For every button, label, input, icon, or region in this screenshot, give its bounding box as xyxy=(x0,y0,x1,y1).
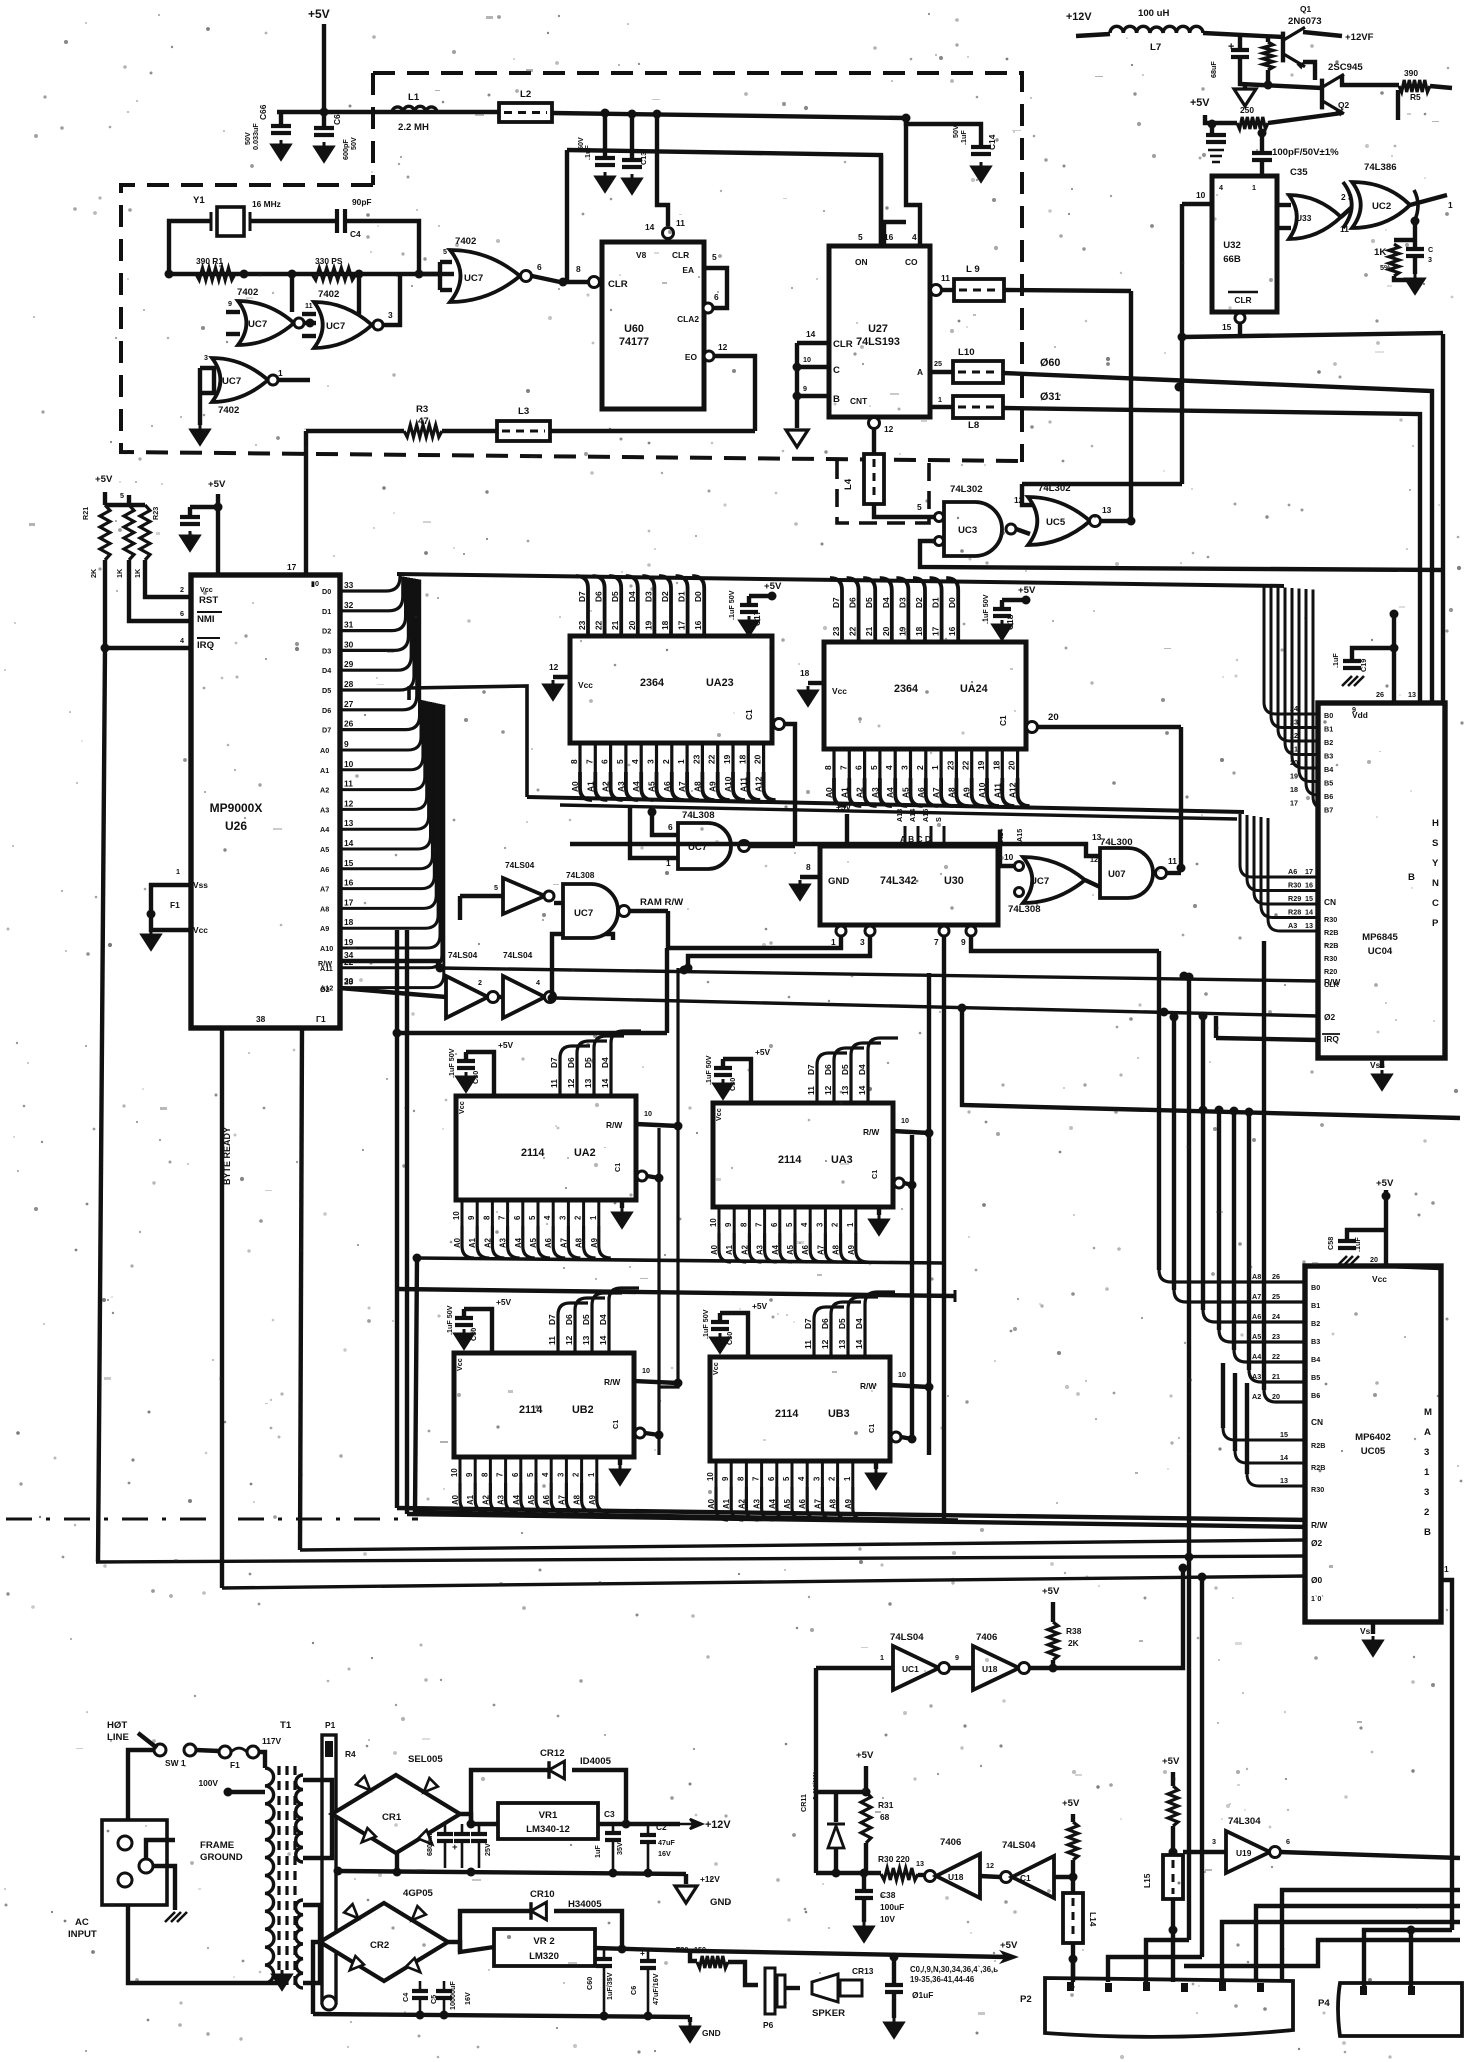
svg-text:D4: D4 xyxy=(600,1057,610,1068)
svg-text:B0: B0 xyxy=(1324,711,1333,720)
CPU U26 MPS9001 xyxy=(191,575,340,1028)
svg-text:A10: A10 xyxy=(977,782,987,798)
svg-text:UC05: UC05 xyxy=(1361,1446,1386,1457)
inverter UC6a 74LS04 xyxy=(460,894,503,898)
svg-text:MP9000X: MP9000X xyxy=(210,801,263,815)
diode CR12 bypass top xyxy=(471,1770,548,1824)
svg-text:D2: D2 xyxy=(322,627,331,636)
svg-text:13: 13 xyxy=(1092,832,1102,842)
svg-text:21: 21 xyxy=(864,626,874,636)
svg-text:21: 21 xyxy=(610,620,620,630)
svg-text:A5: A5 xyxy=(783,1498,792,1509)
wires from right edge into P2 xyxy=(1256,1906,1460,1982)
svg-text:1ˋ0ˋ: 1ˋ0ˋ xyxy=(1311,1594,1324,1603)
svg-text:0.033uF: 0.033uF xyxy=(251,123,260,150)
ROM UA24 top data pins xyxy=(830,578,842,642)
svg-text:A5: A5 xyxy=(786,1244,795,1255)
svg-text:2364: 2364 xyxy=(640,677,664,689)
svg-text:5: 5 xyxy=(526,1472,535,1477)
wire L7 to Q1 xyxy=(1203,33,1283,37)
svg-text:UC1: UC1 xyxy=(902,1664,919,1674)
svg-text:68: 68 xyxy=(880,1812,890,1822)
svg-text:A3: A3 xyxy=(320,805,329,814)
RAM UA3 data pins xyxy=(817,1053,847,1103)
svg-text:Q2: Q2 xyxy=(1338,100,1350,110)
svg-text:A4: A4 xyxy=(320,825,329,834)
svg-text:A5: A5 xyxy=(320,845,329,854)
svg-text:A9: A9 xyxy=(588,1494,597,1505)
svg-text:U27: U27 xyxy=(868,323,888,335)
svg-text:1: 1 xyxy=(930,765,940,770)
svg-text:9.1V/1W: 9.1V/1W xyxy=(811,1772,820,1800)
wire to 74177 CLR pin xyxy=(657,114,668,226)
svg-text:D6: D6 xyxy=(848,597,858,608)
wire U32 bottom pin 15 xyxy=(1235,313,1245,323)
svg-text:10: 10 xyxy=(344,759,354,769)
svg-text:17: 17 xyxy=(1290,799,1298,808)
delay line L8 xyxy=(930,405,953,409)
capacitor C14 xyxy=(906,118,981,145)
svg-text:D4: D4 xyxy=(322,666,331,675)
svg-text:390 R1: 390 R1 xyxy=(196,256,223,266)
gate UC7r 74LS08 xyxy=(678,823,731,869)
svg-text:+5V: +5V xyxy=(498,1040,514,1050)
wire U07 top input long xyxy=(570,844,1100,856)
svg-text:Ø31: Ø31 xyxy=(1040,391,1060,403)
svg-text:2: 2 xyxy=(572,1472,581,1477)
svg-text:47: 47 xyxy=(418,416,429,427)
svg-text:CR11: CR11 xyxy=(799,1794,808,1812)
svg-text:18: 18 xyxy=(660,620,670,630)
UC05 +5V decoupling xyxy=(1384,1190,1388,1266)
capacitor C12 decoupling xyxy=(603,113,607,158)
svg-text:A2: A2 xyxy=(855,787,865,798)
caps C4 C5 xyxy=(419,1981,422,1990)
svg-text:11: 11 xyxy=(549,1079,559,1088)
svg-text:R29: R29 xyxy=(1288,894,1301,903)
svg-text:22: 22 xyxy=(707,754,717,764)
svg-text:17: 17 xyxy=(677,620,687,630)
capacitor C35 timing xyxy=(1260,130,1264,152)
svg-text:A10: A10 xyxy=(320,944,333,953)
wire secondary to CR1 xyxy=(303,1780,332,1814)
svg-text:UC7: UC7 xyxy=(248,319,267,330)
svg-text:23: 23 xyxy=(1272,1332,1280,1341)
svg-text:Ø2: Ø2 xyxy=(1311,1538,1323,1548)
svg-text:Vcc: Vcc xyxy=(711,1362,720,1375)
svg-text:20: 20 xyxy=(1290,758,1298,767)
svg-text:30: 30 xyxy=(344,639,354,649)
svg-text:11: 11 xyxy=(941,273,950,283)
svg-text:74L308: 74L308 xyxy=(682,810,715,821)
counter U60 74177 xyxy=(602,242,704,409)
svg-text:MP6845: MP6845 xyxy=(1362,932,1398,943)
svg-text:6: 6 xyxy=(180,609,184,618)
svg-text:C6: C6 xyxy=(629,1986,638,1995)
RAM UA2 ground xyxy=(613,1208,631,1227)
svg-text:S: S xyxy=(934,817,943,822)
wire bottom bus L1 xyxy=(300,1540,1305,1550)
svg-text:9: 9 xyxy=(803,384,807,393)
RAM UB3 2114 xyxy=(710,1357,890,1461)
wire RAM rw verticals xyxy=(659,968,678,1387)
svg-text:22: 22 xyxy=(1272,1352,1280,1361)
wire U32 line vertical to UC04 xyxy=(1441,334,1445,703)
svg-text:Ø2: Ø2 xyxy=(320,985,330,994)
svg-text:2114: 2114 xyxy=(778,1154,801,1166)
svg-text:F1: F1 xyxy=(230,1760,240,1770)
svg-text:D6: D6 xyxy=(322,706,331,715)
wire switch chain xyxy=(196,1750,219,1751)
speaker CR13 xyxy=(785,1986,800,1990)
wire gate1 out to gate2 xyxy=(304,321,316,325)
svg-text:Ø0: Ø0 xyxy=(1311,1575,1323,1585)
svg-text:+5V: +5V xyxy=(496,1297,512,1307)
svg-text:B5: B5 xyxy=(1311,1373,1320,1382)
svg-text:50V: 50V xyxy=(349,137,358,150)
svg-text:13: 13 xyxy=(1408,690,1416,699)
svg-text:15: 15 xyxy=(1305,894,1313,903)
transistor Q2 2SC945 xyxy=(1320,79,1324,110)
wire phi2 long line to UC04 xyxy=(555,998,1318,1016)
wire zener node row xyxy=(816,1871,881,1875)
wire Q1 base bar xyxy=(1303,62,1315,80)
GND output xyxy=(684,1874,688,1884)
svg-text:16 MHz: 16 MHz xyxy=(252,199,281,209)
wire GND mid rail xyxy=(338,1871,686,1874)
svg-text:RAM R/W: RAM R/W xyxy=(640,897,684,908)
svg-text:D6: D6 xyxy=(820,1318,830,1329)
svg-text:6: 6 xyxy=(1286,1837,1290,1846)
svg-text:3: 3 xyxy=(1428,255,1432,264)
svg-text:2114: 2114 xyxy=(521,1147,544,1159)
wire vertical feed UC05 v7 xyxy=(1247,1112,1251,1370)
svg-text:N: N xyxy=(1432,878,1439,889)
svg-text:13: 13 xyxy=(840,1085,850,1095)
svg-text:L4: L4 xyxy=(843,478,854,490)
UC04 mid pins from phi lines xyxy=(1418,701,1422,705)
RAM UB3 data pins xyxy=(814,1307,844,1357)
svg-text:74L342: 74L342 xyxy=(880,875,917,887)
svg-text:L1: L1 xyxy=(408,92,420,103)
svg-text:T1: T1 xyxy=(280,1720,292,1731)
svg-text:74LS04: 74LS04 xyxy=(503,950,533,960)
svg-text:A8: A8 xyxy=(1252,1272,1261,1281)
svg-text:35V: 35V xyxy=(615,1842,624,1855)
svg-text:10: 10 xyxy=(1196,190,1206,200)
CPU bottom pins vertical xyxy=(220,1028,224,1588)
svg-text:Vss: Vss xyxy=(1370,1060,1385,1070)
svg-text:19: 19 xyxy=(1290,772,1298,781)
dashed page divider xyxy=(6,1518,418,1521)
svg-text:100uF: 100uF xyxy=(880,1902,904,1912)
svg-text:L3: L3 xyxy=(518,406,529,417)
svg-text:UC5: UC5 xyxy=(1046,517,1066,528)
svg-text:13: 13 xyxy=(344,818,354,828)
svg-text:21: 21 xyxy=(1272,1372,1280,1381)
svg-text:6800uF: 6800uF xyxy=(425,1831,434,1856)
svg-text:2114: 2114 xyxy=(775,1408,798,1420)
svg-text:7: 7 xyxy=(838,765,848,770)
resistor R33 150 speaker xyxy=(690,1951,697,1961)
svg-text:Vcc: Vcc xyxy=(193,925,208,935)
svg-text:L2: L2 xyxy=(520,89,531,100)
svg-text:32: 32 xyxy=(344,600,354,610)
svg-text:Γ1: Γ1 xyxy=(316,1014,326,1024)
svg-text:7402: 7402 xyxy=(218,405,239,416)
inverter U19 74LS04 right xyxy=(1183,1850,1226,1854)
svg-text:28: 28 xyxy=(344,679,354,689)
svg-text:A1: A1 xyxy=(320,766,329,775)
svg-text:H: H xyxy=(1432,818,1439,829)
svg-text:4: 4 xyxy=(800,1222,809,1227)
svg-text:A9: A9 xyxy=(708,781,718,792)
wire U07 out to CS vertical xyxy=(1166,871,1181,875)
svg-text:D5: D5 xyxy=(322,686,331,695)
svg-text:3: 3 xyxy=(1212,1837,1216,1846)
svg-text:11: 11 xyxy=(1340,224,1349,234)
svg-text:A1: A1 xyxy=(466,1494,475,1505)
svg-text:9: 9 xyxy=(721,1476,730,1481)
svg-text:.1uF 50V: .1uF 50V xyxy=(701,1309,710,1339)
svg-text:19: 19 xyxy=(643,620,653,630)
svg-text:A7: A7 xyxy=(931,787,941,798)
ground xor RC xyxy=(1394,276,1415,280)
svg-text:Vss: Vss xyxy=(193,880,208,890)
svg-text:R30: R30 xyxy=(1311,1485,1324,1494)
svg-text:C: C xyxy=(1428,245,1433,254)
svg-text:R/W: R/W xyxy=(606,1120,622,1130)
svg-text:CLR: CLR xyxy=(672,250,689,260)
wire A-bus trunk xyxy=(409,686,527,797)
svg-text:U18: U18 xyxy=(948,1872,964,1882)
wire CLR left pins xyxy=(797,341,829,345)
svg-text:A3: A3 xyxy=(616,781,626,792)
svg-text:1: 1 xyxy=(1448,200,1453,210)
RAM UB3 ground xyxy=(867,1469,885,1488)
svg-text:A3: A3 xyxy=(497,1494,506,1505)
svg-text:C1: C1 xyxy=(867,1424,876,1433)
svg-text:A8: A8 xyxy=(573,1494,582,1505)
svg-text:CN: CN xyxy=(1324,897,1336,907)
wire A-bus second line xyxy=(560,805,1237,819)
svg-text:.1uF: .1uF xyxy=(1353,1237,1362,1252)
svg-text:20: 20 xyxy=(1272,1392,1280,1401)
svg-text:10000uF: 10000uF xyxy=(448,1981,457,2010)
svg-text:11: 11 xyxy=(305,301,313,310)
xor gate UC2 74LS86 xyxy=(1352,182,1410,228)
svg-text:A7: A7 xyxy=(557,1495,566,1505)
svg-text:1: 1 xyxy=(587,1472,596,1477)
caps C60 C6 xyxy=(603,1949,606,1958)
svg-text:D5: D5 xyxy=(583,1057,593,1068)
RAM UA3 2114 xyxy=(713,1103,893,1207)
svg-text:150: 150 xyxy=(694,1945,706,1954)
svg-text:A7: A7 xyxy=(1252,1292,1261,1301)
fuse F1 xyxy=(219,1746,231,1758)
svg-text:B6: B6 xyxy=(1324,792,1333,801)
svg-text:ID4005: ID4005 xyxy=(580,1756,612,1767)
svg-text:A4: A4 xyxy=(514,1237,523,1248)
svg-text:A6: A6 xyxy=(544,1237,553,1248)
svg-text:D0: D0 xyxy=(693,591,703,602)
svg-text:R30: R30 xyxy=(1324,915,1337,924)
wire pin16/pin4 top xyxy=(906,118,920,246)
wire oscillator loop bottom xyxy=(169,272,454,276)
wire bottom bus L3 xyxy=(222,1576,1305,1588)
svg-text:7406: 7406 xyxy=(940,1837,961,1848)
svg-text:Vcc: Vcc xyxy=(714,1108,723,1121)
svg-text:74L308: 74L308 xyxy=(566,870,595,880)
svg-text:13: 13 xyxy=(837,1339,847,1349)
svg-text:1: 1 xyxy=(880,1653,884,1662)
svg-text:CLA2: CLA2 xyxy=(677,314,699,324)
svg-text:A3: A3 xyxy=(870,787,880,798)
svg-text:6: 6 xyxy=(767,1476,776,1481)
svg-text:S: S xyxy=(1432,838,1439,849)
svg-text:A7: A7 xyxy=(559,1238,568,1248)
wire rail right of L2 xyxy=(552,113,906,118)
svg-text:1: 1 xyxy=(831,937,836,947)
RAM UB3 +5V cap xyxy=(720,1313,748,1357)
svg-text:2.2 MH: 2.2 MH xyxy=(398,122,429,133)
svg-text:UA23: UA23 xyxy=(706,677,734,689)
svg-text:3: 3 xyxy=(900,765,910,770)
wire Q2 collector to R5 xyxy=(1342,76,1399,85)
svg-text:74L300: 74L300 xyxy=(1100,837,1133,848)
address fan curls into UC04 xyxy=(1240,814,1318,877)
svg-text:10: 10 xyxy=(706,1472,715,1481)
svg-text:6: 6 xyxy=(714,292,719,302)
svg-text:R/W: R/W xyxy=(604,1377,620,1387)
svg-text:B3: B3 xyxy=(1324,752,1333,761)
inverter UC6c 74LS04 xyxy=(498,995,503,999)
svg-text:+5V: +5V xyxy=(1062,1798,1080,1809)
wire crystal to C4 xyxy=(250,219,337,223)
svg-text:A11: A11 xyxy=(992,783,1002,798)
wire A-bus main xyxy=(527,797,1244,812)
RAM UB2 ground xyxy=(611,1465,629,1484)
svg-text:C14: C14 xyxy=(987,134,997,150)
wire RAM left vertical xyxy=(415,1258,417,1512)
ROM UA23 ground pin 12 xyxy=(553,675,570,679)
svg-text:5: 5 xyxy=(494,883,498,892)
svg-text:CR10: CR10 xyxy=(530,1889,555,1900)
svg-text:P1: P1 xyxy=(325,1720,336,1730)
svg-text:5: 5 xyxy=(785,1222,794,1227)
svg-text:+5V: +5V xyxy=(764,581,782,592)
svg-text:8: 8 xyxy=(569,759,579,764)
svg-text:R4: R4 xyxy=(345,1749,356,1759)
wire CS to nand out vertical xyxy=(1179,727,1183,868)
wire crystal left xyxy=(169,221,211,274)
svg-text:R/W: R/W xyxy=(1324,977,1340,987)
svg-text:A5: A5 xyxy=(647,781,657,792)
svg-text:UB3: UB3 xyxy=(828,1408,850,1420)
RAM UA3 +5V cap xyxy=(723,1059,751,1103)
svg-text:16V: 16V xyxy=(658,1849,671,1858)
svg-text:8: 8 xyxy=(736,1476,745,1481)
svg-text:4: 4 xyxy=(884,765,894,770)
svg-text:U60: U60 xyxy=(624,323,644,335)
svg-text:B1: B1 xyxy=(1324,725,1333,734)
decoder +5V top xyxy=(845,814,849,846)
svg-text:GND: GND xyxy=(828,876,849,887)
svg-text:7406: 7406 xyxy=(976,1632,997,1643)
svg-text:74LS04: 74LS04 xyxy=(505,860,535,870)
svg-text:D7: D7 xyxy=(806,1064,816,1075)
svg-text:L8: L8 xyxy=(968,420,980,431)
wire to L14 node xyxy=(1054,1875,1073,1879)
inductor L7 100uH xyxy=(1076,34,1110,36)
transformer secondary upper xyxy=(296,1775,303,1862)
svg-text:D3: D3 xyxy=(897,597,907,608)
svg-text:UC7: UC7 xyxy=(222,376,241,387)
svg-text:66B: 66B xyxy=(1223,254,1241,265)
svg-text:26: 26 xyxy=(344,719,354,729)
wire xor out to RC xyxy=(1413,221,1417,247)
wire Q1 emitter +12VF xyxy=(1303,32,1342,36)
svg-text:C: C xyxy=(1432,898,1439,909)
svg-text:.1uF: .1uF xyxy=(959,130,968,145)
svg-text:2: 2 xyxy=(915,765,925,770)
RAM UA3 ground xyxy=(870,1215,888,1234)
svg-text:390: 390 xyxy=(1404,68,1418,78)
svg-text:B2: B2 xyxy=(1311,1319,1320,1328)
svg-text:11: 11 xyxy=(803,1340,813,1349)
svg-text:+5V: +5V xyxy=(1376,1178,1394,1189)
svg-text:7: 7 xyxy=(584,759,594,764)
delay line L3 xyxy=(497,421,550,441)
svg-text:10: 10 xyxy=(452,1211,461,1220)
svg-text:.1uF: .1uF xyxy=(1331,653,1340,668)
svg-text:D4: D4 xyxy=(881,597,891,608)
svg-text:A2: A2 xyxy=(601,781,611,792)
svg-text:A4: A4 xyxy=(771,1244,780,1255)
svg-text:30: 30 xyxy=(344,976,354,986)
svg-text:D0: D0 xyxy=(947,597,957,608)
svg-text:4: 4 xyxy=(541,1472,550,1477)
svg-text:D6: D6 xyxy=(823,1064,833,1075)
svg-text:8: 8 xyxy=(823,765,833,770)
svg-text:Vcc: Vcc xyxy=(1372,1274,1387,1284)
svg-text:CR2: CR2 xyxy=(370,1940,389,1951)
wire R/W long line to UC04 xyxy=(440,968,1318,981)
svg-text:A5: A5 xyxy=(901,787,911,798)
svg-text:100pF/50V±1%: 100pF/50V±1% xyxy=(1272,147,1339,158)
bridge rectifier CR1 xyxy=(332,1775,460,1853)
svg-text:R28: R28 xyxy=(1288,908,1301,917)
transistor Q1 2N6073 xyxy=(1281,32,1285,63)
UC04 lower-left pin wires xyxy=(1214,1016,1218,1038)
svg-text:B0: B0 xyxy=(1311,1283,1320,1292)
svg-text:12: 12 xyxy=(986,1861,994,1870)
svg-text:D4: D4 xyxy=(627,591,637,602)
svg-text:19-35,36-41,44-46: 19-35,36-41,44-46 xyxy=(910,1975,975,1984)
svg-text:15: 15 xyxy=(1280,1430,1288,1439)
svg-text:C0,/,9,N,30,34,36,4ˋ,36,ь: C0,/,9,N,30,34,36,4ˋ,36,ь xyxy=(910,1965,998,1974)
UC04 ground xyxy=(1380,1058,1384,1068)
svg-text:UC7: UC7 xyxy=(326,321,345,332)
svg-text:Vcc: Vcc xyxy=(578,680,593,690)
svg-text:B4: B4 xyxy=(1311,1355,1320,1364)
svg-text:U07: U07 xyxy=(1108,869,1126,880)
svg-text:9: 9 xyxy=(961,937,966,947)
svg-text:9: 9 xyxy=(228,299,232,308)
UC05 top wire right xyxy=(1386,1266,1441,1268)
svg-text:18: 18 xyxy=(914,626,924,636)
svg-text:B5: B5 xyxy=(1324,779,1333,788)
